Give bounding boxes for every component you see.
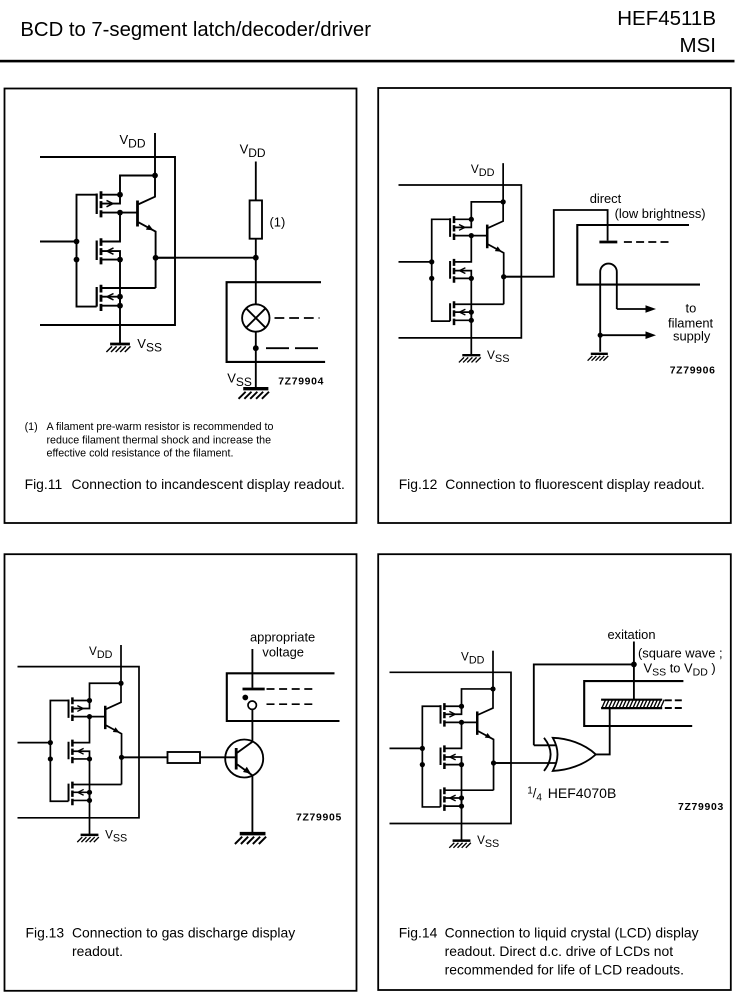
svg-text:Connection to liquid crystal (: Connection to liquid crystal (LCD) displ… — [445, 925, 699, 941]
svg-text:HEF4511B: HEF4511B — [617, 7, 716, 30]
svg-text:7Z79905: 7Z79905 — [296, 813, 342, 824]
svg-text:(1): (1) — [270, 215, 286, 230]
svg-text:Connection to gas discharge di: Connection to gas discharge display — [72, 925, 295, 941]
svg-text:Connection to fluorescent disp: Connection to fluorescent display readou… — [445, 476, 704, 492]
svg-text:exitation: exitation — [608, 627, 656, 642]
svg-text:7Z79903: 7Z79903 — [678, 802, 724, 813]
svg-text:reduce filament thermal shock: reduce filament thermal shock and increa… — [47, 434, 272, 446]
svg-text:7Z79904: 7Z79904 — [278, 377, 324, 388]
svg-text:readout.: readout. — [72, 943, 123, 959]
svg-text:(square wave ;: (square wave ; — [638, 646, 723, 661]
svg-text:Fig.11: Fig.11 — [25, 476, 63, 492]
svg-text:effective cold resistance of t: effective cold resistance of the filamen… — [47, 448, 234, 460]
svg-text:Connection to incandescent dis: Connection to incandescent display reado… — [72, 476, 345, 492]
svg-text:VSS to VDD ): VSS to VDD ) — [644, 661, 716, 679]
svg-text:A filament pre-warm resistor i: A filament pre-warm resistor is recommen… — [47, 421, 274, 433]
svg-text:VDD: VDD — [240, 142, 266, 160]
svg-text:recommended for life of LCD re: recommended for life of LCD readouts. — [445, 962, 684, 978]
svg-text:BCD to 7-segment latch/decoder: BCD to 7-segment latch/decoder/driver — [20, 19, 371, 41]
svg-text:(1): (1) — [25, 421, 38, 433]
svg-text:HEF4070B: HEF4070B — [548, 785, 616, 801]
svg-text:supply: supply — [673, 329, 711, 344]
svg-text:appropriate: appropriate — [250, 630, 315, 645]
svg-text:to: to — [686, 301, 697, 316]
svg-text:direct: direct — [590, 191, 622, 206]
svg-text:Fig.14: Fig.14 — [399, 925, 438, 941]
svg-text:1/4: 1/4 — [527, 786, 542, 804]
svg-text:Fig.13: Fig.13 — [26, 925, 65, 941]
svg-text:readout. Direct d.c. drive of: readout. Direct d.c. drive of LCDs not — [445, 943, 674, 959]
svg-text:MSI: MSI — [680, 34, 716, 57]
svg-text:voltage: voltage — [262, 644, 304, 659]
svg-text:(low brightness): (low brightness) — [615, 206, 706, 221]
svg-text:VSS: VSS — [227, 371, 252, 389]
svg-text:Fig.12: Fig.12 — [399, 476, 438, 492]
svg-text:7Z79906: 7Z79906 — [670, 366, 716, 377]
